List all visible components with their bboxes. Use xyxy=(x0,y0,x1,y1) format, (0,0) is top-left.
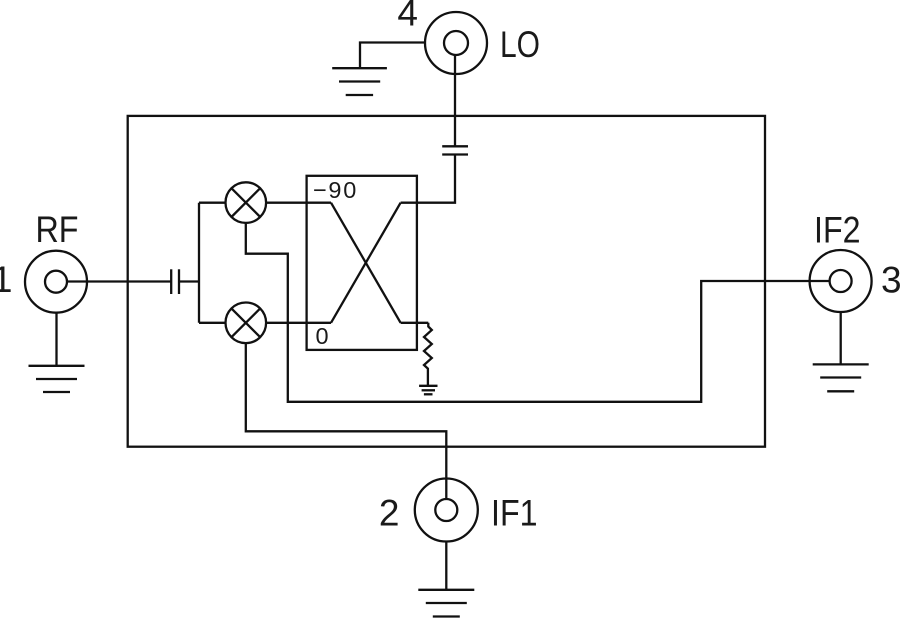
quadrature hybrid U3 box xyxy=(307,176,417,350)
mixer U2 xyxy=(226,303,267,344)
enclosure box (device outline) xyxy=(128,116,765,447)
svg-text:RF: RF xyxy=(36,209,79,250)
svg-text:IF2: IF2 xyxy=(814,210,861,251)
wire splitter to mixer U2 xyxy=(199,322,226,324)
port 1 connector (RF) xyxy=(25,251,87,313)
wire mixer U2 output to IF1 xyxy=(246,343,446,499)
svg-text:LO: LO xyxy=(500,24,540,65)
svg-text:0: 0 xyxy=(316,323,329,349)
svg-text:3: 3 xyxy=(881,259,900,300)
wire LO pin down to capacitor C2 xyxy=(454,55,456,146)
wire C1 to splitter node xyxy=(179,280,199,282)
mixer U1 xyxy=(226,182,267,223)
wire mixer U1 to hybrid top-left port xyxy=(266,202,331,204)
wire mixer U1 output to IF2 xyxy=(246,223,830,402)
hybrid diagonal top-right to bottom-left xyxy=(331,203,401,323)
capacitor C2 xyxy=(442,146,468,154)
wire C2 to hybrid top-right port xyxy=(401,155,455,203)
wire splitter to mixer U1 xyxy=(199,202,226,204)
ground resistor xyxy=(419,386,437,395)
svg-text:4: 4 xyxy=(397,0,418,34)
port 2 connector (IF1) xyxy=(415,479,478,542)
svg-text:IF1: IF1 xyxy=(491,492,538,533)
port 3 connector (IF2) xyxy=(810,250,872,312)
resistor R1 xyxy=(424,323,432,386)
svg-text:1: 1 xyxy=(0,259,13,300)
svg-text:−90: −90 xyxy=(313,177,358,203)
capacitor C1 xyxy=(171,269,179,294)
wire mixer U2 to hybrid bottom-left port xyxy=(266,322,331,324)
ground port 1 xyxy=(29,313,85,393)
wire RF signal to capacitor C1 xyxy=(67,280,171,282)
ground port 4 xyxy=(332,68,387,95)
wire LO shield to ground xyxy=(360,43,425,69)
ground port 2 xyxy=(418,541,474,617)
svg-text:2: 2 xyxy=(379,492,400,533)
wire hybrid bottom-right port to resistor xyxy=(401,322,429,324)
port 4 connector (LO) xyxy=(425,12,487,74)
hybrid diagonal top-left to bottom-right xyxy=(331,203,401,323)
wire splitter vertical xyxy=(198,203,200,323)
ground port 3 xyxy=(813,312,869,391)
